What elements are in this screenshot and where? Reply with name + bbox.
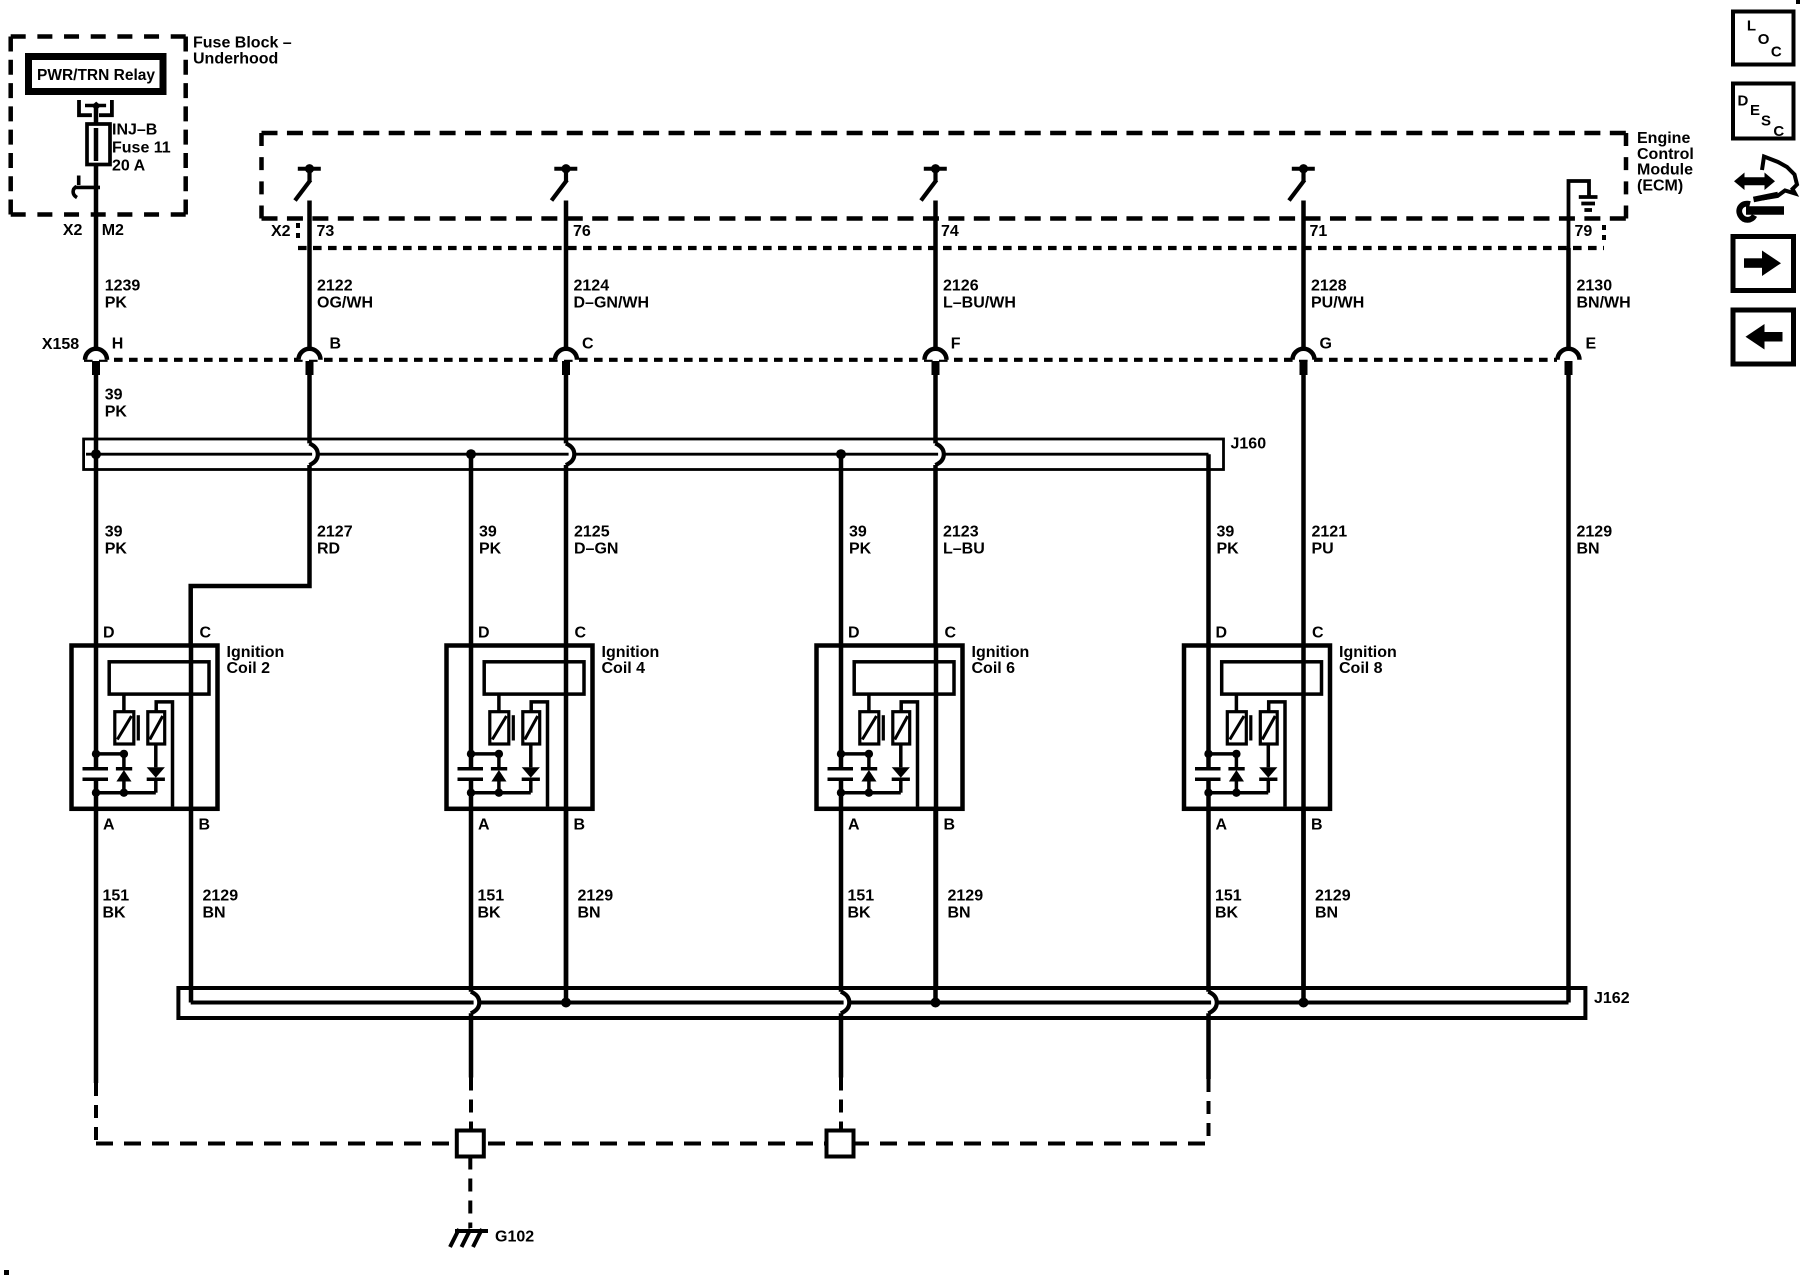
coil 8 center bar (1249, 715, 1252, 740)
svg-text:2129: 2129 (1315, 888, 1351, 905)
svg-text:BN/WH: BN/WH (1577, 295, 1631, 312)
coil 6 resistor 2 top jog wire (901, 702, 917, 807)
svg-text:C: C (1312, 625, 1324, 642)
coil 4 D-A wire lower (469, 779, 474, 809)
wire 2130 BN/WH (1566, 248, 1571, 349)
svg-text:BK: BK (478, 905, 502, 922)
svg-text:PK: PK (479, 541, 502, 558)
connector X2 dotted line (298, 246, 1604, 250)
ignition coil 2 box (72, 646, 218, 809)
svg-text:Coil 8: Coil 8 (1339, 660, 1383, 677)
svg-text:L–BU/WH: L–BU/WH (943, 295, 1016, 312)
coil 4 resistor 2 top jog wire (531, 702, 547, 807)
svg-text:D: D (1738, 93, 1749, 110)
svg-text:2130: 2130 (1577, 278, 1613, 295)
svg-text:A: A (103, 817, 115, 834)
coil 6 capacitor (828, 767, 854, 771)
svg-text:Ignition: Ignition (972, 644, 1030, 661)
connector X158 pin F (925, 349, 947, 360)
wire 2122 OG/WH (307, 201, 312, 349)
svg-text:151: 151 (848, 888, 875, 905)
wire 151 BK coil 2 (94, 809, 99, 1083)
svg-text:39: 39 (849, 524, 867, 541)
splice pack J162 (178, 988, 1585, 1018)
coil 2 D-A wire upper (94, 645, 99, 769)
coil 6 diode 1 (zener up) (867, 754, 871, 769)
wire 2121 PU segment (1301, 375, 1306, 646)
coil 2 capacitor (83, 767, 109, 771)
connector X158 pin C (555, 349, 577, 360)
svg-text:2129: 2129 (578, 888, 614, 905)
back arrow icon box (1733, 310, 1794, 364)
svg-text:C: C (1771, 44, 1782, 61)
coil 8 internal wire winding to resistor (1235, 694, 1239, 712)
svg-text:G102: G102 (495, 1229, 534, 1246)
Engine Control Module (ECM) dashed box (262, 131, 1627, 136)
corner tick mark (1796, 0, 1800, 4)
svg-text:D–GN: D–GN (574, 541, 618, 558)
svg-text:79: 79 (1575, 223, 1593, 240)
crossover chevron (566, 443, 575, 465)
wire 39 PK to coil 4 (469, 454, 474, 645)
page period mark (4, 1270, 9, 1275)
svg-text:BN: BN (203, 905, 226, 922)
ground dashed bus wire (96, 1142, 1209, 1146)
coil 6 resistor 2 (893, 712, 910, 744)
svg-text:BN: BN (1577, 541, 1600, 558)
connector X158 pin H (85, 349, 107, 360)
coil 4 resistor 1 (490, 712, 509, 744)
svg-text:Ignition: Ignition (602, 644, 660, 661)
svg-text:J162: J162 (1594, 990, 1630, 1007)
ignition coil 6 box (817, 646, 963, 809)
wire segment to splice pack (564, 375, 569, 443)
coil 4 C-B through wire (564, 645, 569, 988)
coil 4 primary winding assembly rectangle (484, 662, 584, 694)
svg-text:20 A: 20 A (112, 158, 146, 175)
svg-text:INJ–B: INJ–B (112, 122, 157, 139)
svg-text:2125: 2125 (574, 524, 610, 541)
svg-text:H: H (112, 336, 124, 353)
svg-text:J160: J160 (1231, 436, 1267, 453)
coil 2 diode 1 (zener up) (122, 754, 126, 769)
svg-text:BK: BK (848, 905, 872, 922)
wire 151 BK coil 2 dashed (94, 1083, 98, 1144)
wire 39 PK to coil 2 (94, 439, 99, 646)
coil 8 resistor 2 (1260, 712, 1277, 744)
wire 2126 L-BU/WH (933, 201, 938, 349)
svg-text:OG/WH: OG/WH (317, 295, 373, 312)
coil 6 internal wire winding to resistor (867, 694, 871, 712)
svg-text:C: C (200, 625, 212, 642)
coil 2 internal wire winding to resistor (122, 694, 126, 712)
coil 2 junction wire (96, 752, 124, 756)
coil 8 primary winding assembly rectangle (1222, 662, 1322, 694)
J162 crossover chevron (471, 992, 480, 1014)
forward arrow icon box (1733, 237, 1794, 291)
svg-text:C: C (945, 625, 957, 642)
svg-text:Coil 6: Coil 6 (972, 660, 1016, 677)
svg-text:PU/WH: PU/WH (1311, 295, 1364, 312)
svg-text:BK: BK (1215, 905, 1239, 922)
svg-text:PK: PK (1217, 541, 1240, 558)
crossover chevron (309, 443, 318, 465)
svg-text:A: A (1216, 817, 1228, 834)
coil 8 C-B through wire (1301, 645, 1306, 988)
wire fuse to connector (94, 165, 99, 349)
ECM driver for coil 6 switch symbol (924, 167, 947, 171)
svg-text:2129: 2129 (203, 888, 239, 905)
svg-text:D: D (103, 625, 115, 642)
connector X158 pin E (1558, 349, 1580, 360)
wire 39 PK from connector H (94, 375, 99, 439)
crossover chevron (935, 443, 944, 465)
svg-text:PK: PK (849, 541, 872, 558)
svg-text:Ignition: Ignition (227, 644, 285, 661)
splice dot H (91, 449, 101, 459)
J162 crossover chevron (841, 992, 850, 1014)
svg-text:71: 71 (1310, 223, 1328, 240)
coil 6 junction wire (841, 752, 869, 756)
relay K (PWR/TRN Relay) box (29, 57, 164, 92)
svg-text:Control: Control (1637, 146, 1694, 163)
coil 2 resistor 2 top jog wire (156, 702, 172, 807)
svg-text:S: S (1761, 113, 1771, 130)
svg-text:X2: X2 (63, 222, 83, 239)
svg-text:Engine: Engine (1637, 130, 1690, 147)
svg-text:PWR/TRN Relay: PWR/TRN Relay (37, 67, 155, 84)
coil 8 bottom rail (1209, 791, 1269, 795)
splice dot coil4 feed (466, 449, 476, 459)
svg-text:BN: BN (1315, 905, 1338, 922)
ECM internal ground symbol (1569, 181, 1590, 248)
ECM driver for coil 2 switch symbol (298, 167, 321, 171)
svg-text:PK: PK (105, 404, 128, 421)
svg-text:39: 39 (1217, 524, 1235, 541)
svg-text:73: 73 (317, 223, 335, 240)
coil 2 center bar (137, 715, 140, 740)
coil 6 bottom rail (841, 791, 901, 795)
coil 2 D-A wire lower (94, 779, 99, 809)
coil 8 diode 1 (zener up) (1235, 754, 1239, 769)
wire segment to splice pack (307, 375, 312, 443)
svg-text:L: L (1747, 17, 1756, 34)
wire 2128 PU/WH (1301, 201, 1306, 349)
svg-text:C: C (582, 336, 594, 353)
svg-text:X158: X158 (42, 336, 79, 353)
ECM driver for coil 4 switch symbol (554, 167, 577, 171)
coil 8 resistor 1 (1227, 712, 1246, 744)
coil 4 junction wire (471, 752, 499, 756)
svg-text:A: A (848, 817, 860, 834)
ignition coil 4 box (447, 646, 593, 809)
svg-text:151: 151 (478, 888, 505, 905)
coil 8 D-A wire upper (1206, 645, 1211, 769)
ignition coil 8 box (1184, 646, 1330, 809)
splice pack J160 (84, 439, 1224, 470)
wire 2123 L-BU to coil 6 pin C (933, 465, 938, 646)
inline connection square 1 (457, 1131, 484, 1157)
coil 4 bottom rail (471, 791, 531, 795)
wire relay to fuse (94, 107, 99, 124)
svg-text:X2: X2 (271, 223, 291, 240)
J162 crossover chevron (1208, 992, 1217, 1014)
svg-text:RD: RD (317, 541, 340, 558)
connector X158 pin B (299, 349, 321, 360)
svg-text:Fuse 11: Fuse 11 (112, 140, 171, 157)
svg-text:B: B (574, 817, 586, 834)
coil 8 diode 2 (down) (1267, 744, 1271, 767)
coil 4 capacitor (458, 767, 484, 771)
svg-text:Module: Module (1637, 162, 1693, 179)
svg-text:BN: BN (578, 905, 601, 922)
svg-text:Ignition: Ignition (1339, 644, 1397, 661)
svg-text:74: 74 (941, 223, 959, 240)
svg-text:Fuse Block –: Fuse Block – (193, 34, 292, 51)
coil 4 diode 1 (zener up) (497, 754, 501, 769)
J162 dot coil6 B (931, 998, 941, 1008)
ground drop wire dashed (468, 1157, 472, 1229)
svg-text:F: F (951, 336, 961, 353)
coil 6 D-A wire lower (839, 779, 844, 809)
coil 8 junction wire (1209, 752, 1237, 756)
fuse F11 (INJ-B Fuse 11 20 A) (87, 124, 110, 165)
svg-text:D: D (1216, 625, 1228, 642)
svg-text:BN: BN (948, 905, 971, 922)
svg-text:D: D (848, 625, 860, 642)
svg-text:39: 39 (105, 524, 123, 541)
coil 4 internal wire winding to resistor (497, 694, 501, 712)
ECM driver for coil 8 switch symbol (1292, 167, 1315, 171)
fuse block output terminal hook (77, 176, 81, 186)
svg-text:B: B (199, 817, 211, 834)
svg-text:G: G (1320, 336, 1332, 353)
svg-text:D–GN/WH: D–GN/WH (574, 295, 650, 312)
svg-text:E: E (1586, 336, 1597, 353)
wire 2129 BN coil 4 into splice (564, 809, 569, 1003)
coil 4 diode 2 (down) (529, 744, 533, 767)
svg-text:Underhood: Underhood (193, 50, 278, 67)
svg-text:(ECM): (ECM) (1637, 177, 1683, 194)
svg-text:2123: 2123 (943, 524, 979, 541)
svg-text:B: B (330, 336, 342, 353)
wire 2125 D-GN to coil 4 pin C (564, 465, 569, 646)
svg-text:B: B (1311, 817, 1323, 834)
svg-text:O: O (1758, 31, 1770, 48)
DESC icon box (1733, 84, 1794, 139)
svg-text:E: E (1750, 102, 1760, 119)
svg-text:2129: 2129 (948, 888, 984, 905)
wire 2129 BN coil 8 into splice (1301, 809, 1306, 1003)
connector X158 pin G (1293, 349, 1315, 360)
wire 2124 D-GN/WH (564, 201, 569, 349)
coil 4 D-A wire upper (469, 645, 474, 769)
J160 splice wire (86, 453, 312, 456)
svg-text:BK: BK (103, 905, 127, 922)
svg-text:L–BU: L–BU (943, 541, 985, 558)
jump icon double arrow (1744, 177, 1765, 185)
svg-text:1239: 1239 (105, 278, 141, 295)
jump icon scribble arrow (1762, 157, 1797, 199)
coil 6 primary winding assembly rectangle (854, 662, 954, 694)
svg-text:D: D (478, 625, 490, 642)
coil 4 resistor 2 (523, 712, 540, 744)
J162 dot coil4 B (561, 998, 571, 1008)
svg-text:76: 76 (573, 223, 591, 240)
coil 6 diode 2 (down) (899, 744, 903, 767)
inline connection square 2 (827, 1131, 854, 1157)
svg-text:39: 39 (105, 387, 123, 404)
coil 2 primary winding assembly rectangle (109, 662, 209, 694)
coil 6 center bar (882, 715, 885, 740)
svg-text:2127: 2127 (317, 524, 353, 541)
svg-text:PK: PK (105, 295, 128, 312)
coil 6 C-B through wire (934, 645, 939, 988)
ground symbol G102 (455, 1229, 488, 1233)
wire 39 PK to coil 6 (839, 454, 844, 645)
svg-text:B: B (944, 817, 956, 834)
svg-text:C: C (575, 625, 587, 642)
svg-text:2126: 2126 (943, 278, 979, 295)
coil 2 diode 2 (down) (154, 744, 158, 767)
LOC icon box (1733, 12, 1794, 65)
wire 151 BK coil 6 (839, 809, 844, 992)
J162 splice wire (191, 1001, 474, 1005)
wire 39 PK to coil 8 from bus end (1206, 454, 1211, 645)
coil 6 resistor 1 (860, 712, 879, 744)
wire 2127 RD jog to coil 2 pin C (191, 465, 310, 646)
wire 151 BK coil 8 (1206, 809, 1211, 992)
J162 dot coil8 B (1299, 998, 1309, 1008)
svg-text:2128: 2128 (1311, 278, 1347, 295)
svg-text:2121: 2121 (1312, 524, 1348, 541)
svg-text:Coil 2: Coil 2 (227, 660, 271, 677)
svg-text:M2: M2 (102, 222, 124, 239)
coil 2 resistor 1 (115, 712, 134, 744)
svg-text:Coil 4: Coil 4 (602, 660, 646, 677)
wire 2129 BN segment from connector E (1566, 375, 1571, 1003)
connector X2 left separator (296, 223, 300, 243)
svg-text:PK: PK (105, 541, 128, 558)
coil 4 center bar (512, 715, 515, 740)
svg-text:2129: 2129 (1577, 524, 1613, 541)
svg-text:2122: 2122 (317, 278, 353, 295)
svg-text:2124: 2124 (574, 278, 610, 295)
svg-text:A: A (478, 817, 490, 834)
jump icon lower stroke (1754, 195, 1779, 200)
relay contact terminal bracket (79, 100, 112, 115)
connector X158 dotted line (84, 358, 1557, 362)
connector X2 right separator (1602, 225, 1606, 243)
svg-text:39: 39 (479, 524, 497, 541)
wire segment to splice pack (933, 375, 938, 443)
coil 8 D-A wire lower (1206, 779, 1211, 809)
coil 2 resistor 2 (148, 712, 165, 744)
wire 2129 BN coil 6 into splice (933, 809, 938, 1003)
wire 151 BK coil 4 (469, 809, 474, 992)
coil 8 capacitor (1195, 767, 1221, 771)
svg-text:151: 151 (103, 888, 130, 905)
coil 8 resistor 2 top jog wire (1269, 702, 1285, 807)
coil 2 bottom rail (96, 791, 156, 795)
splice dot coil6 feed (836, 449, 846, 459)
svg-text:C: C (1773, 123, 1784, 140)
svg-text:151: 151 (1215, 888, 1242, 905)
fuse block - underhood dashed box (11, 34, 186, 39)
coil 2 C-B through wire (189, 645, 194, 1003)
coil 6 D-A wire upper (839, 645, 844, 769)
svg-text:PU: PU (1312, 541, 1334, 558)
